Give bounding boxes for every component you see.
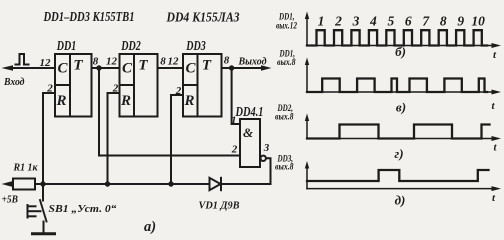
- svg-text:C: C: [122, 61, 133, 77]
- junction DD3 output node: [229, 65, 234, 70]
- wire DD3.8 to output: [222, 67, 263, 69]
- junction DD1 output node: [96, 65, 101, 70]
- junction DD2 R node: [105, 181, 110, 186]
- output arrow: [261, 65, 272, 70]
- axis g horizontal: [307, 138, 494, 140]
- diode VD1: [210, 178, 222, 190]
- svg-text:вых.12: вых.12: [276, 22, 297, 32]
- svg-text:а): а): [144, 219, 156, 235]
- svg-text:DD3: DD3: [186, 38, 206, 53]
- svg-text:4: 4: [369, 14, 377, 29]
- axis d horizontal: [307, 188, 494, 190]
- svg-text:5: 5: [388, 14, 395, 29]
- svg-text:R: R: [55, 93, 66, 109]
- svg-text:3: 3: [352, 14, 360, 29]
- svg-text:t: t: [493, 49, 497, 61]
- waveform DD2 vyh.8: [307, 125, 490, 139]
- wire DD1.8 feedback down: [99, 68, 240, 156]
- svg-text:Вход: Вход: [3, 76, 25, 88]
- svg-text:г): г): [394, 146, 403, 161]
- svg-text:C: C: [185, 61, 196, 77]
- flip-flop DD3: [183, 54, 222, 117]
- wire DD1.8 to DD2.12: [92, 67, 120, 69]
- svg-text:10: 10: [471, 14, 485, 29]
- axis v vertical: [306, 62, 308, 92]
- svg-text:2: 2: [334, 14, 342, 29]
- flip-flop DD2: [120, 54, 158, 117]
- svg-text:R1 1к: R1 1к: [13, 163, 39, 174]
- wire DD3.8 to DD4.1 pin1: [232, 68, 240, 124]
- svg-text:t: t: [492, 192, 496, 204]
- svg-text:DD2: DD2: [121, 38, 141, 53]
- pulse numbers 1-10: [318, 14, 485, 29]
- wire DD1 R to reset bus: [43, 93, 55, 184]
- waveform DD1 vyh.12 clock: [307, 30, 487, 45]
- NAND gate DD4.1: [240, 119, 260, 167]
- axis b horizontal: [307, 45, 494, 47]
- svg-text:вых.8: вых.8: [275, 113, 294, 123]
- svg-text:DD4.1: DD4.1: [235, 104, 264, 119]
- svg-text:DD1: DD1: [56, 38, 76, 53]
- svg-text:DD1–DD3 К155ТВ1: DD1–DD3 К155ТВ1: [43, 9, 135, 24]
- svg-text:2: 2: [231, 144, 238, 156]
- wire DD2.8 to DD3.12: [158, 67, 184, 69]
- wire DD3 R to reset bus: [171, 95, 183, 184]
- svg-text:12: 12: [168, 56, 180, 68]
- junction reset node at switch: [40, 181, 45, 186]
- waveform DD1 vyh.8: [307, 79, 487, 93]
- axis b vertical: [306, 16, 308, 46]
- input pulse symbol: [16, 54, 29, 65]
- svg-text:&: &: [243, 125, 253, 140]
- svg-text:вых.8: вых.8: [277, 58, 296, 68]
- svg-text:T: T: [202, 58, 212, 74]
- switch SB1: [28, 184, 47, 222]
- svg-text:3: 3: [263, 142, 270, 154]
- wire DD4.1 output down to diode: [223, 158, 271, 184]
- wire input to DD1 C: [11, 67, 55, 69]
- wire switch to ground: [43, 222, 45, 234]
- svg-text:+5В: +5В: [2, 195, 19, 206]
- svg-text:t: t: [494, 142, 498, 154]
- svg-text:T: T: [73, 58, 83, 74]
- svg-text:б): б): [395, 44, 406, 59]
- +5V arrow: [2, 181, 13, 186]
- resistor R1: [13, 179, 35, 190]
- svg-text:8: 8: [440, 14, 447, 29]
- ground: [33, 232, 55, 235]
- axis g vertical: [306, 118, 308, 139]
- inversion bubble DD4.1 output: [261, 156, 266, 161]
- wire DD2 R to reset bus: [108, 93, 120, 184]
- svg-text:Выход: Выход: [238, 56, 267, 68]
- svg-text:8: 8: [224, 55, 230, 67]
- svg-text:R: R: [120, 93, 131, 109]
- axis d vertical: [306, 166, 308, 189]
- svg-text:DD4 К155ЛА3: DD4 К155ЛА3: [166, 10, 240, 25]
- svg-text:SB1 „Уст. 0“: SB1 „Уст. 0“: [49, 204, 118, 215]
- svg-text:вых.8: вых.8: [275, 163, 294, 173]
- svg-text:R: R: [183, 93, 194, 109]
- svg-text:12: 12: [40, 57, 52, 69]
- junction DD3 R node: [168, 181, 173, 186]
- svg-text:1: 1: [318, 14, 325, 29]
- input arrow: [2, 65, 14, 71]
- svg-text:T: T: [138, 58, 148, 74]
- svg-text:1: 1: [231, 115, 237, 127]
- svg-text:t: t: [492, 100, 496, 112]
- svg-text:в): в): [396, 100, 406, 115]
- svg-text:7: 7: [422, 14, 430, 29]
- svg-text:VD1 Д9В: VD1 Д9В: [199, 201, 240, 212]
- svg-text:д): д): [395, 193, 406, 208]
- svg-text:6: 6: [405, 14, 412, 29]
- waveform DD3 vyh.8: [307, 170, 489, 181]
- svg-text:8: 8: [160, 56, 166, 68]
- svg-text:C: C: [57, 61, 68, 77]
- wire diode to reset bus: [35, 183, 210, 185]
- svg-text:12: 12: [106, 56, 118, 68]
- flip-flop DD1: [55, 54, 92, 117]
- svg-text:9: 9: [457, 14, 464, 29]
- axis v horizontal: [307, 91, 494, 93]
